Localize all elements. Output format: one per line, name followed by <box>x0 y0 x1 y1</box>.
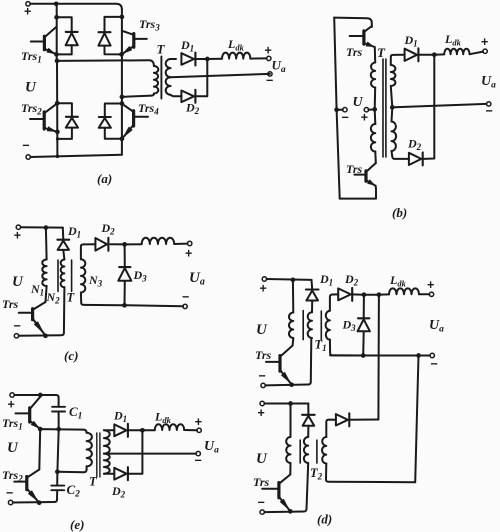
transformer T2 core <box>299 440 301 463</box>
node primary center tap <box>372 107 377 112</box>
transformer T1 secondary <box>330 294 338 310</box>
node D1 cathode e <box>129 429 142 431</box>
wire N1 to collector <box>46 286 47 302</box>
svg-text:+: + <box>185 247 192 261</box>
circuit (d) interleaved forward converters <box>253 272 444 527</box>
node emitter d lower <box>288 509 293 514</box>
transformer T2 demag winding <box>304 437 308 463</box>
transformer T1 core <box>302 311 304 340</box>
terminal U right b <box>364 108 368 112</box>
node emitter on bottom rail <box>43 333 48 338</box>
winding N2 <box>61 260 65 288</box>
svg-text:U: U <box>256 322 268 338</box>
diode D1 d <box>311 280 314 290</box>
terminal output + e <box>197 428 201 432</box>
diode D1 b <box>405 49 417 61</box>
svg-text:U: U <box>12 274 24 290</box>
transformer core b <box>382 59 384 157</box>
wire emitter to primary top <box>374 47 376 63</box>
diode D3 c <box>124 244 126 267</box>
inductor Ldk b <box>434 53 444 55</box>
node primary bottom tap <box>120 95 125 100</box>
wire left leg e <box>38 429 41 469</box>
wire D2 cathode up to D1 node <box>424 55 434 159</box>
svg-text:Trs: Trs <box>346 162 363 176</box>
svg-text:(c): (c) <box>64 348 78 363</box>
node Trs4 collector <box>120 101 125 106</box>
terminal U left b <box>343 108 347 112</box>
inductor Ldk a <box>207 58 222 60</box>
diode D2 c <box>95 238 107 251</box>
transistor Trs c <box>31 309 34 320</box>
diode D1 a <box>181 53 194 65</box>
terminal output - a <box>268 72 272 76</box>
wire D1 anode to N2 <box>63 250 64 260</box>
transformer secondary upper half b <box>391 55 405 65</box>
svg-text:+: + <box>8 398 15 412</box>
transformer secondary winding <box>171 58 176 60</box>
svg-text:−: − <box>266 74 273 88</box>
svg-text:+: + <box>481 35 488 49</box>
node left midpoint <box>55 59 60 64</box>
transistor Trs1 <box>43 36 46 50</box>
diode antiparallel Trs4 <box>105 104 122 118</box>
diode D2 a <box>181 91 194 103</box>
wire D2 cathode up to node e <box>129 430 142 473</box>
svg-text:+: + <box>14 229 21 243</box>
transistor Trs1 e <box>28 408 31 422</box>
transistor Trs bottom b <box>364 171 367 182</box>
transistor Trs d upper <box>278 356 281 372</box>
transformer T primary winding <box>154 66 158 94</box>
node emitter d upper <box>289 382 294 387</box>
transistor Trs d lower <box>277 483 280 498</box>
node Trs1 collector branch e <box>38 393 43 398</box>
svg-text:−: − <box>431 357 438 371</box>
node D2 out <box>352 293 364 295</box>
terminal + input top-left <box>26 2 30 6</box>
svg-text:(d): (d) <box>317 512 332 527</box>
terminal input + c <box>16 225 20 229</box>
wire bottom rail d lower <box>264 463 308 512</box>
node rectifier output <box>196 58 207 60</box>
node top rail junction <box>54 1 59 6</box>
terminal input - d upper <box>261 383 265 387</box>
wire input rail d upper <box>267 278 312 281</box>
diode D2 d <box>338 288 351 300</box>
node Trs1 emitter e <box>38 427 43 432</box>
node Trs2 emitter <box>55 130 60 135</box>
wire midpoint rail e <box>40 429 86 433</box>
node primary feed d lower <box>288 401 293 406</box>
wire N1 feed down <box>45 228 48 260</box>
transformer core e <box>96 433 98 477</box>
wire divider to primary bottom <box>57 470 86 473</box>
terminal output + c <box>188 241 192 245</box>
node secondary center tap <box>390 105 395 110</box>
svg-text:−: − <box>486 104 493 118</box>
transformer secondary lower half b <box>391 107 394 121</box>
transformer T primary lower half <box>374 109 377 124</box>
inductor Ldk d <box>379 293 389 295</box>
secondary center tap e <box>104 453 196 455</box>
circuit (b) push-pull converter <box>334 18 496 220</box>
circuit (a) full-bridge converter <box>21 1 286 186</box>
transistor Trs3 <box>132 34 135 48</box>
wire bottom rail <box>30 155 122 157</box>
transformer T1 demag winding <box>308 312 312 338</box>
terminal input + d lower <box>260 401 264 405</box>
svg-text:+: + <box>260 282 267 296</box>
transistor Trs4 <box>132 111 135 126</box>
node N1 branch <box>44 225 49 230</box>
svg-text:(e): (e) <box>70 517 84 532</box>
diode D2 b <box>409 153 421 165</box>
transformer T1 primary <box>289 313 293 339</box>
node Trs1 emitter <box>54 52 59 57</box>
node Trs2 emitter e <box>37 500 42 505</box>
diode antiparallel Trs1 <box>57 17 72 32</box>
transformer secondary upper e <box>104 429 114 431</box>
node Trs4 emitter <box>120 136 125 141</box>
svg-text:U: U <box>256 451 268 467</box>
wire cross-coupling vertical 1 <box>377 295 380 420</box>
svg-text:−: − <box>22 138 29 152</box>
capacitor C2 <box>56 472 58 486</box>
wire cross diode cathode to vertical 1 <box>349 419 378 421</box>
svg-text:−: − <box>259 369 266 383</box>
wire right leg vertical <box>121 10 123 155</box>
inductor Ldk e <box>142 429 154 431</box>
wire input top rail c <box>21 226 63 228</box>
diode antiparallel Trs2 <box>57 103 72 117</box>
circuit (c) forward converter <box>2 221 205 363</box>
capacitor C1 <box>52 406 65 408</box>
diode antiparallel Trs3 <box>105 17 122 32</box>
terminal output - e <box>196 451 200 455</box>
secondary center tap wire <box>171 74 270 77</box>
svg-text:+: + <box>24 5 31 19</box>
node Trs3 collector branch <box>120 15 125 20</box>
transformer core <box>160 57 162 99</box>
diode demag d lower <box>307 404 309 415</box>
terminal input + d upper <box>262 277 266 281</box>
node D2 cathode <box>110 243 124 245</box>
wire primary feed down <box>292 280 294 313</box>
wire emitter to bottom rail <box>340 186 376 199</box>
node capacitor divider bottom <box>55 469 60 474</box>
terminal output - c <box>183 304 187 308</box>
transistor Trs2 e <box>25 477 28 490</box>
node D1 cathode junction <box>420 54 435 56</box>
transformer core c <box>57 260 59 291</box>
svg-text:T: T <box>157 42 166 57</box>
svg-text:−: − <box>195 454 202 468</box>
svg-text:+: + <box>427 278 434 292</box>
node Trs1 collector branch <box>54 15 59 20</box>
transformer T2 secondary <box>326 420 336 437</box>
svg-text:(a): (a) <box>97 171 112 186</box>
node Trs2 collector <box>55 101 60 106</box>
terminal input - e <box>8 500 12 504</box>
svg-text:(b): (b) <box>392 205 407 220</box>
node Ldk branch d <box>364 294 379 296</box>
svg-text:Trs: Trs <box>253 475 270 489</box>
terminal output + b <box>483 49 487 53</box>
wire primary to collector d upper <box>292 338 295 346</box>
svg-text:Trs: Trs <box>2 297 19 311</box>
wire U+ to center tap <box>369 108 375 110</box>
transistor Trs top b <box>362 31 365 44</box>
node D3 anode on output return <box>122 303 127 308</box>
wire input rail d lower <box>264 403 308 405</box>
svg-text:−: − <box>6 486 13 500</box>
inductor output c <box>125 243 142 245</box>
terminal input - d lower <box>260 510 264 514</box>
terminal output + a <box>267 56 271 60</box>
svg-text:−: − <box>342 111 349 125</box>
svg-text:U: U <box>7 440 19 456</box>
diode D1 c <box>57 239 69 241</box>
wire outer loop left and top <box>334 18 340 199</box>
wire D1 feed <box>62 228 65 240</box>
node capacitor divider top <box>56 427 61 432</box>
svg-text:Trs: Trs <box>346 45 363 59</box>
wire left leg vertical <box>56 4 58 61</box>
diode cross d lower <box>336 414 348 425</box>
transformer primary e <box>87 433 92 467</box>
winding N3 <box>81 244 96 259</box>
svg-text:−: − <box>182 290 189 304</box>
wire bottom rail c <box>19 287 65 336</box>
terminal output + d <box>429 292 433 296</box>
wire bottom rail d upper <box>265 338 311 385</box>
wire top rail e <box>14 395 58 407</box>
wire to U terminal <box>339 109 343 111</box>
wire output return d <box>330 354 416 356</box>
terminal input - c <box>14 334 18 338</box>
wire cross-coupling vertical 2 <box>415 356 418 483</box>
svg-text:U: U <box>25 80 37 96</box>
node D3 anode <box>361 353 366 358</box>
wire center tap to output - <box>394 104 486 107</box>
svg-text:+: + <box>265 44 272 58</box>
svg-text:−: − <box>258 496 265 510</box>
wire primary to center tap <box>374 88 377 110</box>
terminal input + e <box>10 393 14 397</box>
wire primary bottom to right leg <box>122 94 154 97</box>
wire output return c <box>122 305 183 306</box>
svg-text:+: + <box>361 111 368 125</box>
wire D2 cathode up to node <box>196 59 207 96</box>
svg-text:T: T <box>377 45 386 60</box>
node Trs3 emitter <box>119 52 124 57</box>
wire cap divider vertical <box>57 429 58 472</box>
diode D3 d <box>363 295 365 319</box>
node primary feed d upper <box>291 278 296 283</box>
svg-text:+: + <box>195 415 202 429</box>
circuit (e) half-bridge converter <box>2 393 219 532</box>
transformer secondary lower e <box>104 454 110 474</box>
svg-text:−: − <box>14 319 21 333</box>
terminal output - b <box>487 102 491 106</box>
node U source minus <box>334 107 339 112</box>
diode D1 e <box>114 424 126 436</box>
node return branch <box>416 353 421 358</box>
terminal input bottom-left <box>26 155 30 159</box>
transistor Trs2 <box>43 112 46 129</box>
winding N1 <box>42 260 46 287</box>
terminal output - d <box>430 353 434 357</box>
svg-text:U: U <box>353 95 364 110</box>
svg-text:+: + <box>258 406 265 420</box>
wire top rail <box>30 4 122 10</box>
diode D2 e <box>114 468 126 480</box>
svg-text:Trs: Trs <box>255 348 272 362</box>
transformer T2 primary <box>286 437 290 463</box>
transformer T primary upper half <box>371 63 375 88</box>
wire left midpoint to primary top <box>57 60 154 66</box>
